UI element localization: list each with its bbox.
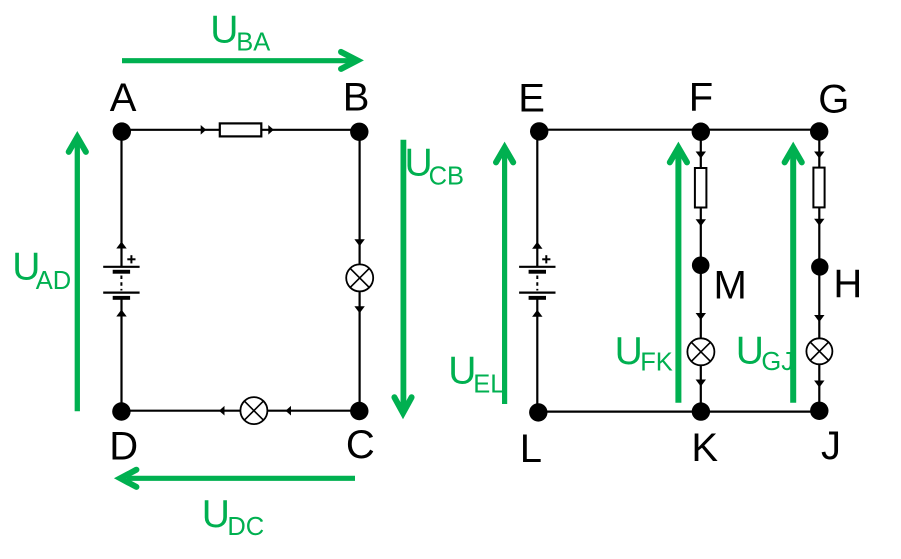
- node F: [692, 123, 710, 141]
- label U_FK: [615, 330, 673, 376]
- wire E-L lower segment: [536, 297, 538, 412]
- resistor R2 (vertical box on F-K): [695, 168, 707, 208]
- current arrow on A-B (right of resistor, pointing right): [268, 125, 274, 135]
- wire A-B (top): [122, 129, 359, 131]
- svg-text:U: U: [615, 330, 643, 373]
- label U_AD: [12, 245, 71, 295]
- current arrow on G-J 2nd (pointing down): [814, 219, 824, 226]
- current arrow on B-C lower (pointing down): [354, 306, 364, 313]
- svg-text:EL: EL: [473, 370, 504, 398]
- node J: [810, 402, 828, 420]
- label U_GJ: [736, 329, 794, 376]
- wire E-L upper segment: [536, 131, 538, 266]
- current arrow on A-B (left of resistor, pointing right): [201, 125, 207, 135]
- battery B2 (on E-L): [519, 255, 555, 300]
- svg-text:U: U: [202, 493, 230, 536]
- current arrow on A-D upper (pointing up): [116, 242, 126, 249]
- resistor R3 (vertical box on G-J): [813, 168, 824, 208]
- label U_DC: [202, 493, 264, 541]
- svg-text:U: U: [210, 8, 238, 51]
- resistor R1 (horizontal box on A-B): [220, 123, 261, 136]
- current arrow on B-C upper (pointing down): [354, 239, 364, 246]
- svg-text:E: E: [518, 76, 545, 120]
- node M: [692, 257, 710, 275]
- label U_EL: [448, 349, 504, 398]
- voltage arrow U_EL (green, pointing up): [496, 148, 513, 404]
- svg-text:D: D: [109, 425, 138, 469]
- voltage arrow U_CB (green, pointing down): [394, 140, 411, 413]
- node G: [810, 122, 828, 140]
- current arrow on D-C left (pointing left): [219, 406, 225, 416]
- current arrow on F-K 1st (pointing down): [696, 152, 706, 159]
- svg-text:AD: AD: [36, 267, 71, 295]
- current arrow on F-K 4th (pointing down): [696, 380, 706, 387]
- svg-text:CB: CB: [429, 163, 464, 191]
- svg-text:F: F: [689, 76, 713, 120]
- current arrow on G-J 4th (pointing down): [814, 381, 824, 388]
- battery B1 (on A-D): [103, 255, 139, 300]
- svg-text:A: A: [110, 76, 137, 120]
- lamp P1 (on B-C): [346, 264, 373, 291]
- current arrow on E-L lower (pointing up): [532, 310, 542, 317]
- voltage arrow U_DC (green, pointing left): [120, 470, 355, 487]
- wire L-J (bottom): [538, 411, 819, 413]
- current arrow on F-K 3rd (pointing down): [696, 313, 706, 320]
- svg-text:K: K: [691, 426, 718, 470]
- svg-text:J: J: [821, 424, 841, 468]
- current arrow on G-J 1st (pointing down): [814, 152, 824, 159]
- label U_CB: [405, 141, 465, 190]
- current arrow on A-D lower (pointing up): [116, 310, 126, 317]
- wire F-K (middle branch): [700, 132, 702, 412]
- node B: [350, 123, 368, 141]
- voltage arrow U_FK (green, pointing up): [670, 148, 687, 403]
- svg-text:H: H: [833, 262, 862, 306]
- svg-text:C: C: [346, 423, 375, 467]
- wire G-J (right branch): [818, 132, 820, 411]
- svg-text:L: L: [520, 427, 542, 471]
- svg-text:G: G: [818, 78, 849, 122]
- node H: [811, 258, 828, 275]
- voltage arrow U_GJ (green, pointing up): [785, 148, 802, 403]
- current arrow on G-J 3rd (pointing down): [814, 315, 824, 322]
- svg-text:U: U: [736, 329, 764, 372]
- node C: [350, 402, 368, 420]
- wire B-C (right side): [359, 132, 361, 411]
- node K: [692, 402, 710, 420]
- svg-text:DC: DC: [227, 513, 264, 541]
- wire D-C (bottom): [121, 410, 359, 412]
- node D: [112, 402, 130, 420]
- current arrow on D-C right (pointing left): [286, 406, 292, 416]
- svg-text:GJ: GJ: [761, 348, 794, 376]
- svg-text:U: U: [448, 349, 476, 392]
- wire A-D upper segment (left side): [120, 132, 122, 267]
- voltage arrow U_AD (green, pointing up): [69, 137, 86, 411]
- wire A-D lower segment (left side): [120, 297, 122, 412]
- wire E-G (top): [539, 129, 819, 131]
- lamp P4 (on G-J): [806, 338, 832, 364]
- node A: [113, 122, 131, 140]
- node E: [530, 122, 548, 140]
- lamp P3 (on F-K): [687, 338, 714, 365]
- svg-text:FK: FK: [640, 348, 673, 376]
- svg-text:M: M: [714, 263, 747, 307]
- node L: [529, 403, 547, 421]
- current arrow on F-K 2nd (pointing down): [696, 219, 706, 226]
- voltage arrow U_BA (green, pointing right): [122, 52, 357, 69]
- lamp P2 (on D-C): [240, 397, 267, 424]
- label U_BA: [210, 8, 270, 56]
- svg-text:BA: BA: [236, 28, 270, 56]
- current arrow on E-L upper (pointing up): [532, 242, 542, 249]
- svg-text:B: B: [343, 76, 370, 120]
